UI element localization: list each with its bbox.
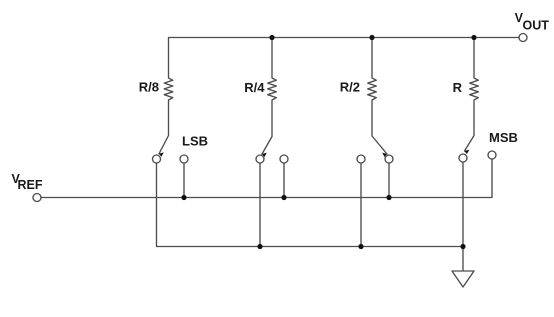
svg-text:LSB: LSB bbox=[182, 134, 208, 149]
svg-text:MSB: MSB bbox=[489, 130, 518, 145]
svg-text:R/8: R/8 bbox=[139, 80, 159, 95]
svg-text:REF: REF bbox=[18, 178, 43, 192]
svg-text:OUT: OUT bbox=[523, 19, 550, 33]
svg-text:R/2: R/2 bbox=[340, 80, 360, 95]
svg-text:R: R bbox=[453, 80, 463, 95]
svg-text:R/4: R/4 bbox=[244, 80, 265, 95]
